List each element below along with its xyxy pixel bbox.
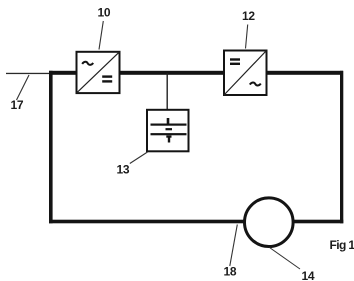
U12 DC symbol (=) bbox=[230, 58, 240, 65]
svg-text:Fig 1: Fig 1 bbox=[330, 238, 354, 252]
rectifier U10 box bbox=[77, 52, 120, 93]
input line 17 (thin feed line) bbox=[6, 73, 49, 74]
U10 DC symbol (=) bbox=[102, 75, 112, 82]
leader line to 18 bbox=[230, 225, 238, 267]
svg-text:17: 17 bbox=[11, 98, 24, 112]
svg-text:13: 13 bbox=[117, 163, 130, 177]
leader line to 10 bbox=[99, 21, 103, 50]
leader line to 13 bbox=[130, 152, 148, 164]
svg-text:18: 18 bbox=[224, 265, 237, 279]
battery box B13 bbox=[147, 110, 189, 152]
inverter U12 box bbox=[224, 51, 267, 96]
U12 AC symbol (~) bbox=[250, 82, 261, 85]
leader line to 12 bbox=[246, 25, 248, 49]
wire top bus bbox=[49, 71, 343, 75]
U10 AC symbol (~) bbox=[82, 62, 93, 65]
svg-text:12: 12 bbox=[242, 9, 255, 23]
wire bottom bbox=[49, 220, 343, 224]
wire right vertical bbox=[340, 71, 343, 224]
svg-text:14: 14 bbox=[302, 269, 315, 281]
battery bottom stub (T) bbox=[166, 136, 171, 143]
wire left vertical bbox=[49, 71, 53, 224]
motor M14 circle bbox=[244, 198, 293, 247]
leader line to 14 bbox=[270, 248, 301, 270]
svg-text:10: 10 bbox=[98, 6, 111, 20]
battery short plate (dash) bbox=[166, 128, 173, 130]
battery plate 1 (long) bbox=[151, 124, 187, 126]
battery plate 2 (long) bbox=[151, 133, 187, 135]
leader line to 17 bbox=[17, 75, 30, 100]
battery top stub bbox=[167, 118, 170, 124]
wire battery drop bbox=[167, 73, 168, 110]
